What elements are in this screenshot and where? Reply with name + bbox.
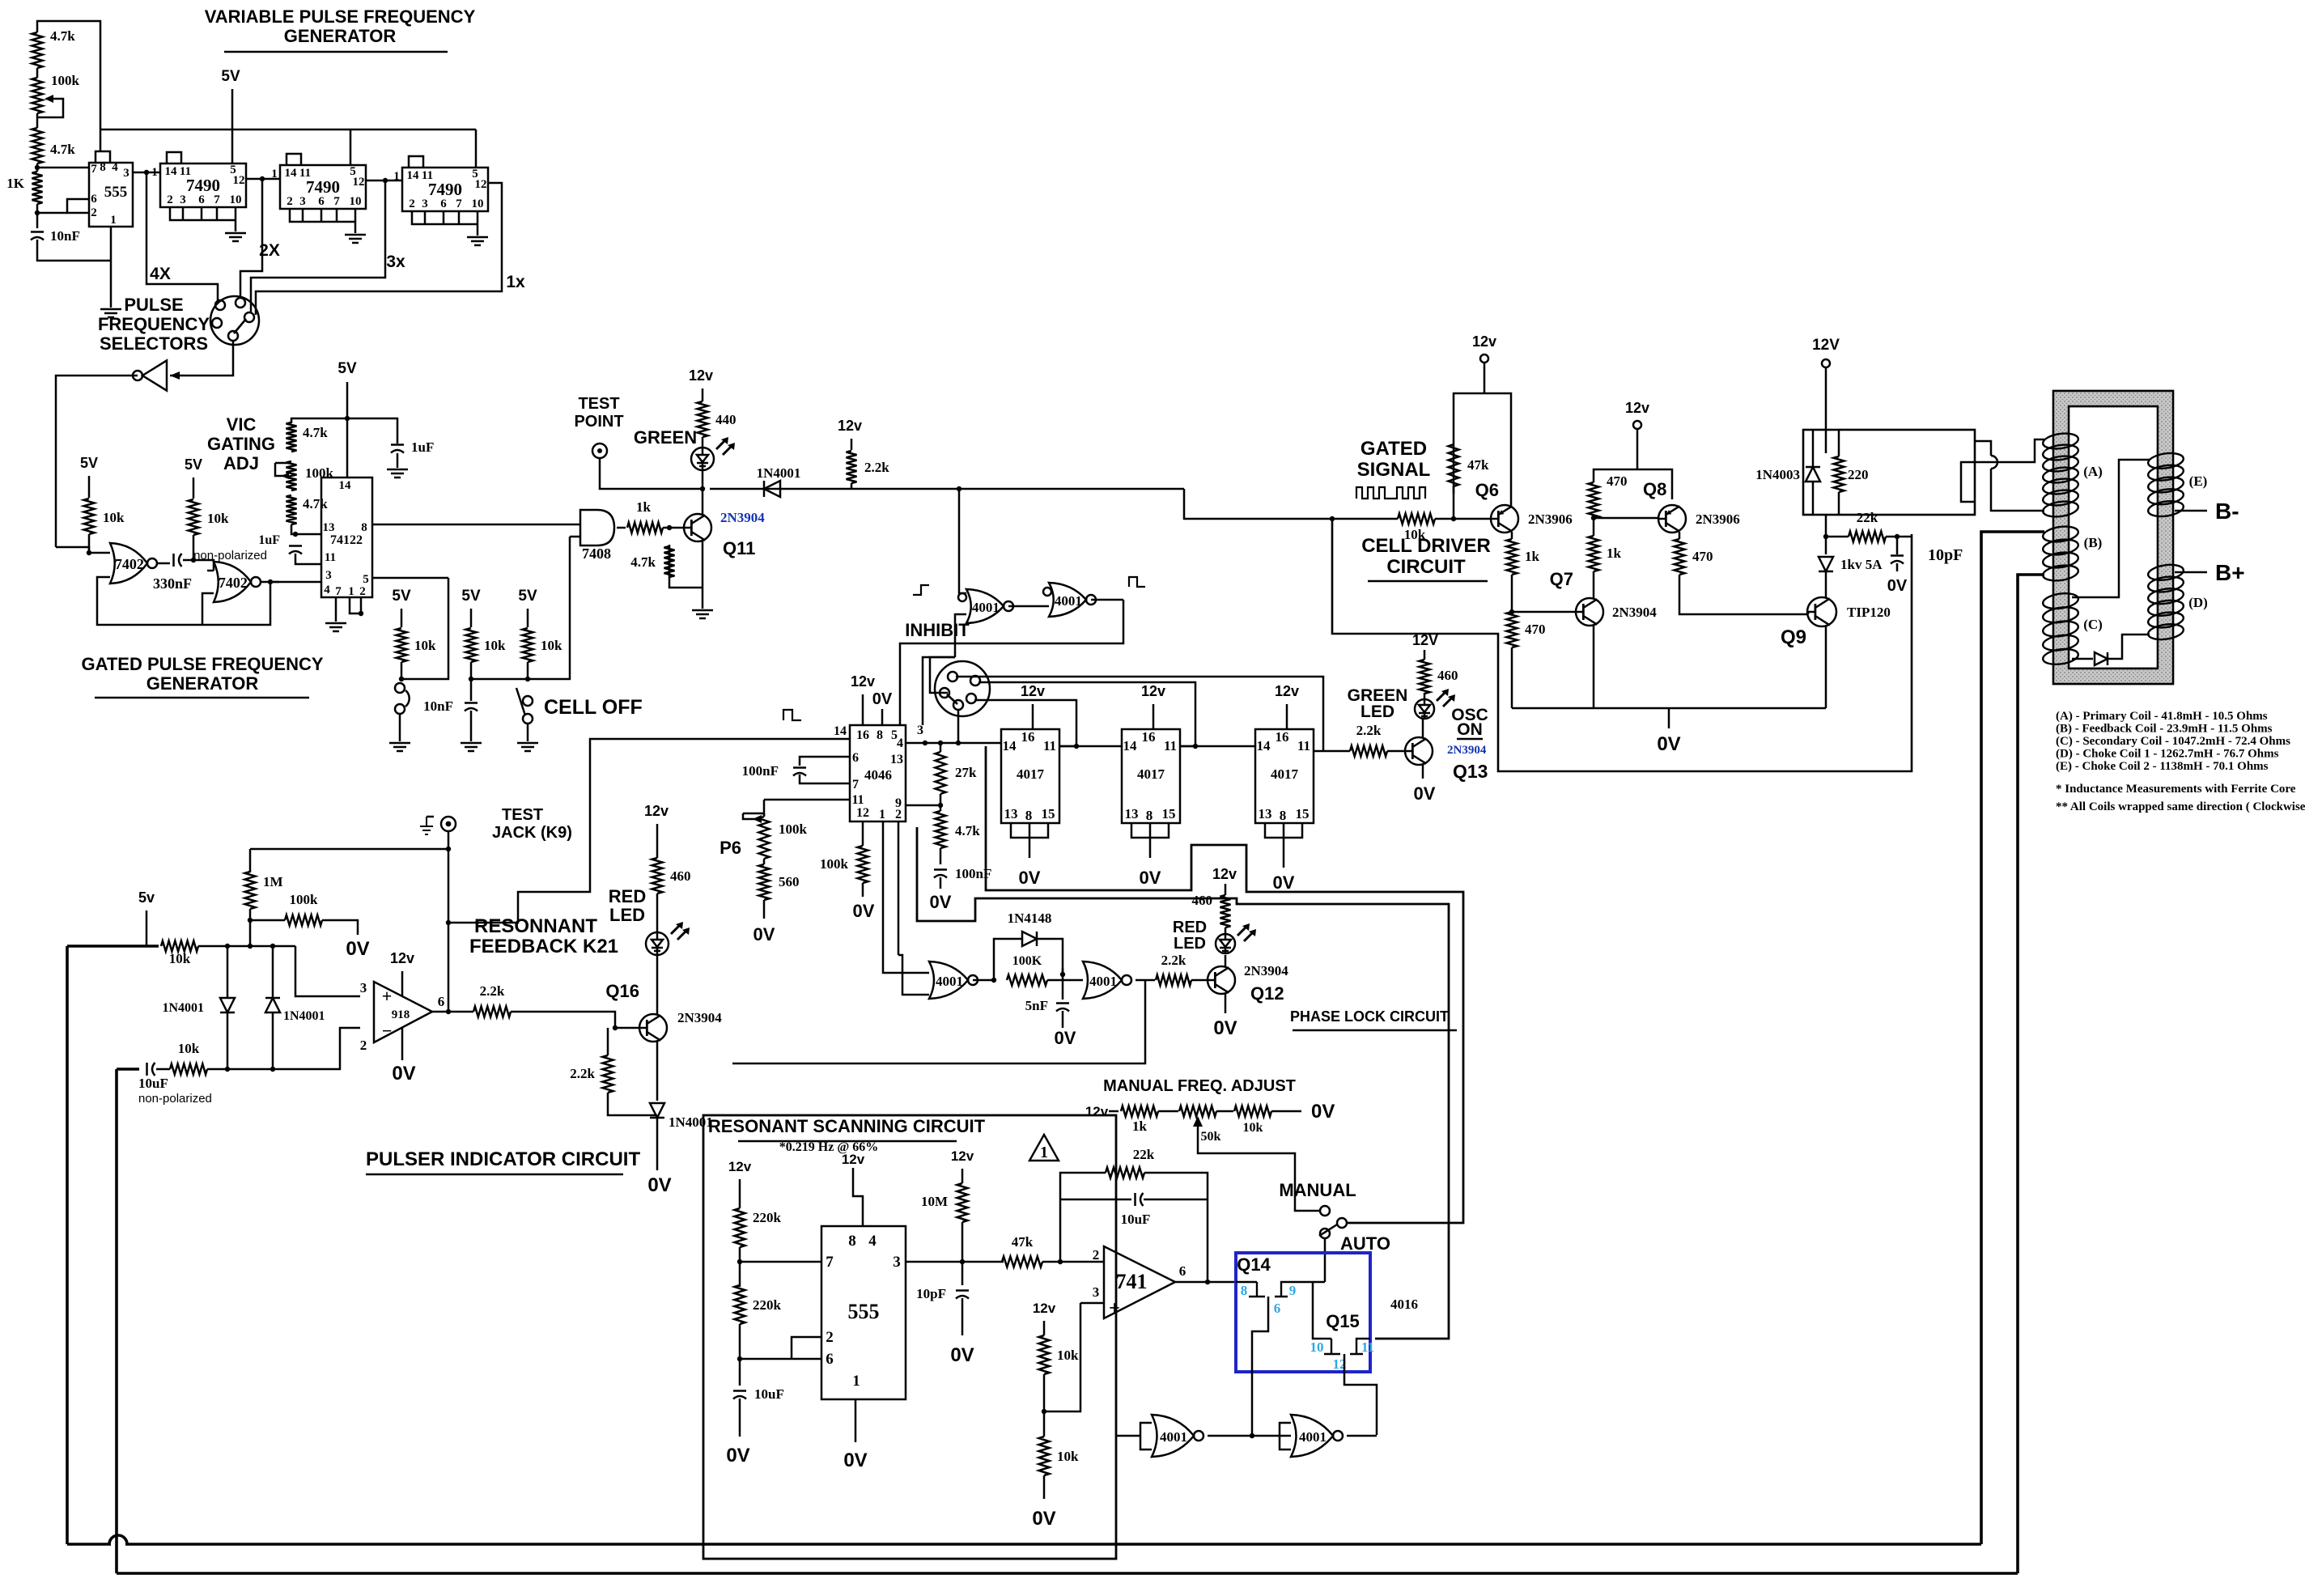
svg-text:FEEDBACK K21: FEEDBACK K21 — [469, 936, 618, 957]
svg-text:SELECTORS: SELECTORS — [100, 333, 208, 354]
svg-text:10k: 10k — [1057, 1348, 1079, 1363]
wire pin11 link — [764, 799, 850, 801]
wire 100nF b2 — [800, 775, 850, 783]
svg-text:1N4001: 1N4001 — [669, 1114, 713, 1130]
svg-text:0V: 0V — [1019, 868, 1041, 888]
svg-text:0V: 0V — [1032, 1508, 1055, 1530]
terminal 12V Q9 — [1822, 359, 1830, 367]
wire bottom B out — [1347, 1435, 1377, 1437]
wire 4.7k emitter — [669, 545, 703, 588]
svg-text:(A): (A) — [2083, 464, 2103, 479]
node 22k — [1823, 534, 1828, 539]
wire 2.2k down — [851, 483, 853, 489]
wire Q13 collector — [1422, 719, 1424, 738]
wire inhibit A top input — [959, 489, 966, 593]
wire B out — [1091, 599, 1123, 601]
svg-text:14: 14 — [407, 169, 420, 182]
svg-text:11: 11 — [1361, 1339, 1374, 1355]
resistor 2.2k Q13 — [1350, 746, 1387, 757]
wire 74122 pin7 gnd — [335, 597, 337, 622]
waveform glyph inhibit out — [1129, 577, 1145, 587]
wire fb right — [1144, 1173, 1208, 1282]
svg-text:2: 2 — [360, 1038, 367, 1053]
svg-text:10k: 10k — [484, 638, 506, 653]
wire d1 — [227, 946, 229, 998]
resistor 470 Q8a — [1589, 482, 1599, 518]
svg-text:POINT: POINT — [574, 413, 623, 431]
LED green Q13 — [1415, 699, 1434, 719]
svg-text:1k: 1k — [1132, 1118, 1148, 1134]
svg-text:14: 14 — [339, 479, 352, 492]
wire Q11 emitter — [702, 541, 704, 609]
wire 7402b upper in — [207, 570, 214, 572]
svg-text:MANUAL: MANUAL — [1279, 1180, 1356, 1200]
terminal 12v Q8 — [1633, 421, 1641, 429]
wire 27k top — [940, 743, 942, 752]
svg-text:TIP120: TIP120 — [1847, 605, 1891, 620]
wire A out to B — [1008, 605, 1049, 608]
wire U8-U9 — [1180, 745, 1255, 748]
svg-text:10nF: 10nF — [423, 698, 453, 714]
svg-text:555: 555 — [104, 184, 128, 201]
wire opamp 0v — [401, 1028, 404, 1060]
wire 0v 4046 — [881, 709, 884, 725]
svg-text:10uF: 10uF — [754, 1386, 784, 1402]
wire Q14 top junction — [1280, 1281, 1283, 1284]
svg-text:7490: 7490 — [306, 177, 340, 197]
svg-text:ADJ: ADJ — [223, 453, 259, 473]
wire 5V cell c — [527, 609, 529, 627]
resistor 460 Q13 — [1420, 660, 1430, 694]
ground switch c — [517, 742, 538, 745]
diode 1N4001 a — [764, 481, 780, 497]
thick wire left A — [66, 946, 69, 1544]
svg-text:(B) - Feedback Coil - 23.9mH -: (B) - Feedback Coil - 23.9mH - 11.5 Ohms — [2056, 723, 2273, 736]
wire 10uF down — [739, 1399, 741, 1437]
resistor 10k Rb — [189, 499, 199, 535]
resistor 10k cell c — [523, 628, 533, 662]
wire mfa lead — [1109, 1110, 1119, 1113]
svg-text:5V: 5V — [185, 456, 202, 473]
svg-text:1: 1 — [271, 168, 278, 180]
svg-text:12v: 12v — [1021, 683, 1045, 699]
node 5v c — [345, 416, 350, 421]
wire 7402b out — [261, 581, 279, 584]
wire top-left loop — [37, 21, 100, 151]
svg-text:5V: 5V — [392, 588, 411, 605]
bus inner — [917, 827, 1449, 1339]
svg-text:8: 8 — [1241, 1283, 1248, 1298]
wire 3x drop — [251, 180, 385, 312]
resistor 10k Q6 — [1398, 514, 1435, 524]
wire cap pll down — [940, 877, 942, 889]
underline phase lock — [1293, 1029, 1457, 1032]
wire feedback loop — [97, 577, 270, 625]
potentiometer 100k P5 — [287, 461, 297, 490]
wire jack stub — [427, 816, 434, 818]
wire diode to Q9 — [1825, 571, 1827, 597]
wire rail to 7490c pin5 — [475, 129, 478, 168]
resistor 10M — [957, 1183, 968, 1222]
svg-text:5V: 5V — [221, 68, 240, 85]
svg-text:2N3906: 2N3906 — [1696, 511, 1740, 527]
wire 1M down — [249, 909, 252, 946]
svg-text:12v: 12v — [1085, 1104, 1109, 1119]
node jack-res — [446, 847, 451, 851]
wire 5v pulser — [146, 910, 148, 946]
wire B- lead — [2175, 510, 2207, 512]
node pin9 net — [938, 803, 943, 808]
node cell c — [525, 677, 530, 681]
svg-text:11: 11 — [1297, 738, 1310, 753]
wire Rd to pin13 — [291, 524, 321, 534]
wire 5V cell a — [401, 609, 403, 627]
svg-text:4.7k: 4.7k — [50, 28, 75, 44]
wire inverter out — [56, 376, 138, 547]
resonant scanning box — [703, 1115, 1116, 1559]
diode 1N4001 in1 — [220, 998, 235, 1012]
wire U1 pin1 to gnd — [110, 227, 112, 308]
node inv junction — [87, 550, 91, 555]
svg-text:VARIABLE PULSE FREQUENCY: VARIABLE PULSE FREQUENCY — [205, 6, 476, 27]
switch manual b — [1337, 1218, 1347, 1228]
node 1M join — [248, 944, 253, 949]
svg-text:Q11: Q11 — [723, 538, 755, 558]
wire 5V c down — [346, 382, 349, 478]
wire 47k to 741 — [1042, 1261, 1104, 1263]
wire 5nF down — [1062, 1011, 1064, 1028]
svg-text:12v: 12v — [951, 1148, 974, 1164]
svg-text:13: 13 — [890, 753, 903, 766]
svg-text:8: 8 — [1280, 808, 1287, 823]
resistor 10k cell a — [397, 628, 407, 662]
wire 1n4148 loop b — [1037, 939, 1063, 974]
svg-text:4017: 4017 — [1271, 766, 1299, 782]
svg-text:1N4148: 1N4148 — [1008, 910, 1052, 926]
node pin3 — [144, 170, 149, 175]
switch push a — [395, 683, 405, 693]
wire U1 pin2 — [37, 212, 67, 214]
test jack K9 — [441, 817, 456, 831]
resistor 10k div a — [1039, 1335, 1050, 1374]
svg-text:PHASE LOCK CIRCUIT: PHASE LOCK CIRCUIT — [1290, 1008, 1449, 1025]
resistor 470 Q6 — [1507, 612, 1518, 647]
capacitor 10nF b — [465, 702, 478, 704]
svg-text:1: 1 — [1040, 1144, 1048, 1161]
node 10k b — [191, 558, 196, 562]
svg-text:1: 1 — [151, 166, 158, 179]
resistor 10k mfa — [1234, 1106, 1271, 1117]
svg-text:LED: LED — [1174, 935, 1206, 953]
node 1uF np top — [293, 532, 298, 537]
svg-text:2.2k: 2.2k — [1356, 723, 1382, 738]
svg-text:4017: 4017 — [1017, 766, 1045, 782]
svg-text:10k: 10k — [178, 1041, 200, 1056]
svg-text:10: 10 — [472, 197, 484, 210]
transformer core — [2053, 391, 2173, 684]
capacitor 10uF np — [146, 1063, 148, 1076]
wire mfa 3 — [1271, 1110, 1301, 1113]
svg-text:Q12: Q12 — [1250, 983, 1284, 1004]
wire U1 pin3 out — [133, 172, 160, 174]
svg-text:2N3904: 2N3904 — [1447, 744, 1487, 757]
wire 4X drop — [146, 172, 218, 300]
wire rotary to inverter — [170, 341, 233, 376]
svg-text:Q13: Q13 — [1453, 761, 1488, 782]
wire 4.7k to cap — [940, 848, 942, 864]
svg-text:2: 2 — [826, 1329, 834, 1346]
node div — [1042, 1409, 1046, 1414]
node pin2 junction — [35, 210, 40, 215]
svg-text:470: 470 — [1692, 549, 1713, 564]
svg-text:12v: 12v — [838, 418, 862, 434]
LED red Q16 — [646, 932, 669, 955]
wire C-E link — [2072, 460, 2150, 597]
svg-text:10: 10 — [350, 195, 362, 208]
svg-text:1kv 5A: 1kv 5A — [1840, 557, 1883, 572]
svg-text:1N4003: 1N4003 — [1755, 467, 1800, 482]
wire U1 pin7 — [37, 167, 89, 169]
svg-text:12v: 12v — [1472, 333, 1496, 350]
resistor 460 Q12 — [1220, 895, 1231, 927]
IC 7490 counter U4 — [402, 168, 488, 211]
wire 12v U7 — [1032, 704, 1034, 729]
svg-text:RED: RED — [609, 886, 646, 906]
wire pl B out — [1136, 979, 1155, 982]
svg-text:RED: RED — [1173, 919, 1207, 936]
thick wire left B — [115, 1069, 118, 1573]
wire 10k cell b down — [470, 662, 473, 681]
resistor 220 — [1834, 456, 1844, 492]
svg-text:10k: 10k — [207, 511, 229, 526]
wire 560 down — [763, 900, 766, 919]
wire pin4 to 4017 — [906, 742, 1001, 745]
svg-text:4001: 4001 — [1089, 974, 1117, 989]
wire coil drive top2 — [1991, 469, 2044, 511]
wire R4-C1 — [36, 204, 39, 228]
wire Q8 base — [1594, 517, 1658, 520]
node 741 pin2 — [1058, 1259, 1063, 1264]
wire inhibit A lower in — [955, 614, 966, 657]
ground under U3 — [345, 234, 366, 236]
wire R1-R2 — [36, 68, 39, 78]
svg-text:JACK (K9): JACK (K9) — [492, 824, 572, 842]
svg-text:7402: 7402 — [115, 556, 144, 572]
resistor 2.2k Q12 — [1156, 975, 1191, 986]
svg-text:B-: B- — [2215, 499, 2239, 524]
capacitor 10pF — [1891, 554, 1904, 557]
svg-text:8: 8 — [1146, 808, 1153, 823]
resistor 2.2k a — [847, 451, 857, 483]
svg-text:50k: 50k — [1201, 1130, 1221, 1144]
svg-text:MANUAL FREQ. ADJUST: MANUAL FREQ. ADJUST — [1103, 1077, 1296, 1095]
node pl loop left — [991, 978, 996, 983]
IC 7490 counter U3 — [280, 165, 366, 209]
svg-text:2.2k: 2.2k — [570, 1066, 595, 1081]
wire bottom A in — [1116, 1435, 1140, 1437]
wire 12V Q9 down — [1825, 367, 1827, 453]
svg-text:10k: 10k — [1243, 1121, 1263, 1135]
wire 7402b lower in — [202, 593, 214, 625]
svg-text:P6: P6 — [720, 838, 741, 858]
svg-text:4X: 4X — [150, 265, 171, 283]
svg-text:(C): (C) — [2083, 617, 2103, 632]
svg-text:* Inductance Measurements with: * Inductance Measurements with Ferrite C… — [2056, 783, 2296, 796]
wire 12v Q8 down — [1636, 429, 1639, 469]
svg-text:1N4001: 1N4001 — [757, 465, 801, 481]
wire Q6 pullup loop — [1454, 393, 1511, 507]
svg-text:5v: 5v — [138, 889, 155, 906]
ground under U1 — [100, 308, 121, 311]
svg-text:6: 6 — [438, 994, 445, 1009]
wire 5V cell b — [470, 609, 473, 627]
svg-text:−: − — [382, 1021, 393, 1041]
NOR gate 7402 #2 — [214, 562, 251, 602]
wire pl A in2b — [898, 955, 929, 995]
svg-text:220k: 220k — [753, 1210, 782, 1225]
wire 741 out — [1175, 1281, 1236, 1284]
wire diode Q16 down — [656, 1118, 659, 1170]
wire LED to node — [702, 470, 704, 516]
wire div down — [1043, 1475, 1046, 1499]
svg-text:4001: 4001 — [1160, 1429, 1187, 1445]
svg-text:non-polarized: non-polarized — [138, 1092, 212, 1106]
wire 100nF bracket — [800, 757, 850, 766]
wire 5V a — [88, 476, 91, 498]
svg-text:(D) - Choke Coil 1 - 1262.7mH: (D) - Choke Coil 1 - 1262.7mH - 76.7 Ohm… — [2056, 748, 2279, 761]
wire 1k Q7 up — [1593, 518, 1595, 536]
svg-text:5nF: 5nF — [1025, 998, 1048, 1013]
svg-text:460: 460 — [1192, 893, 1213, 908]
svg-text:12v: 12v — [1141, 683, 1165, 699]
svg-text:11: 11 — [325, 551, 336, 564]
IC 555 timer U1 — [89, 163, 133, 227]
svg-text:12V: 12V — [1812, 337, 1840, 354]
svg-text:10k: 10k — [169, 951, 191, 966]
wire pl B out down — [732, 980, 1145, 1063]
resistor 440 — [698, 401, 708, 437]
wire testpoint down — [600, 458, 703, 489]
wire mfa 1 — [1158, 1110, 1178, 1113]
7490 U2 bottom stubs — [170, 207, 236, 231]
transistor Q12 2N3904 — [1208, 966, 1235, 994]
resistor 1k Q7 — [1589, 536, 1599, 571]
resistor 1K R4 — [32, 172, 43, 204]
svg-text:11: 11 — [1043, 738, 1056, 753]
svg-text:12v: 12v — [1212, 866, 1237, 882]
wire 7402a out — [158, 562, 170, 565]
svg-text:7: 7 — [852, 778, 859, 792]
svg-text:2N3904: 2N3904 — [1612, 605, 1657, 620]
4017 U8 bottom stubs — [1131, 823, 1169, 858]
svg-text:0V: 0V — [1140, 868, 1161, 888]
svg-text:12v: 12v — [390, 950, 414, 966]
svg-text:13: 13 — [1004, 806, 1018, 821]
wire led to Q16 — [656, 955, 659, 1015]
wire pin8 to 7408 — [372, 524, 580, 526]
blue box 4016 — [1236, 1253, 1370, 1372]
wire div mid — [1043, 1374, 1046, 1437]
wire pin2 bracket — [792, 1337, 821, 1359]
transistor Q11 2N3904 — [684, 514, 711, 541]
svg-text:2: 2 — [287, 195, 293, 208]
svg-text:460: 460 — [1437, 668, 1458, 683]
svg-text:12v: 12v — [644, 803, 669, 819]
pot wiper VR1 — [37, 99, 63, 117]
wire rotary2 left up — [930, 657, 955, 693]
capacitor 100nF 4046 — [793, 766, 806, 769]
svg-text:918: 918 — [392, 1008, 410, 1021]
svg-text:LED: LED — [1361, 702, 1394, 721]
svg-text:6: 6 — [1179, 1263, 1186, 1279]
input notch bottom B — [1280, 1423, 1291, 1450]
svg-text:INHIBIT: INHIBIT — [905, 620, 970, 640]
4017 U9 bottom stubs — [1265, 823, 1302, 858]
node pl mid — [1060, 972, 1065, 977]
wire cap to pin11 — [295, 554, 321, 564]
svg-text:1k: 1k — [1525, 549, 1540, 564]
svg-text:3: 3 — [123, 167, 129, 180]
node Q6 base — [1451, 516, 1456, 521]
wire pl mid — [1062, 968, 1064, 1000]
svg-text:11: 11 — [180, 165, 191, 178]
svg-text:4001: 4001 — [936, 974, 963, 989]
wire 2X drop — [240, 179, 262, 298]
wire rail stub 0v — [1668, 708, 1670, 728]
cell area border — [1332, 519, 1912, 771]
wire 12v U9 — [1286, 704, 1288, 729]
NOR gate 7402 #1 — [110, 543, 147, 584]
svg-text:(E): (E) — [2189, 473, 2208, 489]
wire Q8 collector — [1679, 532, 1681, 539]
7490 U4 bottom stubs — [412, 211, 478, 236]
svg-text:2: 2 — [409, 197, 415, 210]
svg-text:1K: 1K — [6, 176, 25, 191]
wire 1k Q6 down — [1511, 575, 1513, 612]
hop coil wire — [1991, 456, 1997, 469]
svg-text:100nF: 100nF — [742, 763, 779, 779]
potentiometer 50k — [1179, 1106, 1216, 1117]
waveform glyph inhibit in — [913, 585, 929, 595]
IC 7490 counter U2 — [160, 163, 246, 207]
svg-text:10: 10 — [1310, 1339, 1324, 1355]
wire inhibit down — [1184, 489, 1398, 519]
wire wiper route — [1198, 1139, 1320, 1211]
svg-text:12v: 12v — [1275, 683, 1299, 699]
svg-text:4016: 4016 — [1390, 1297, 1418, 1312]
svg-text:Q6: Q6 — [1475, 480, 1499, 500]
wire to pin3 — [295, 946, 360, 996]
wire d2b — [272, 1012, 274, 1069]
svg-text:CELL DRIVER: CELL DRIVER — [1361, 535, 1491, 557]
wire 12v Q16 — [656, 824, 659, 858]
svg-text:4: 4 — [897, 736, 903, 750]
svg-text:(B): (B) — [2084, 535, 2103, 550]
wire 10pF up — [1896, 537, 1899, 554]
svg-text:14: 14 — [834, 724, 847, 738]
NOR gate 4001 inhibit A — [966, 589, 1004, 623]
svg-text:330nF: 330nF — [153, 575, 192, 592]
wire fb up — [1060, 1173, 1106, 1262]
node 10pF — [1895, 534, 1900, 539]
svg-text:GENERATOR: GENERATOR — [146, 673, 259, 694]
svg-text:100k: 100k — [290, 892, 319, 907]
resistor 2.2k out — [473, 1007, 511, 1017]
svg-text:7: 7 — [91, 163, 97, 176]
svg-text:14: 14 — [1257, 738, 1271, 753]
wire Q7 emitter down — [1593, 625, 1595, 708]
svg-text:7490: 7490 — [428, 180, 462, 199]
